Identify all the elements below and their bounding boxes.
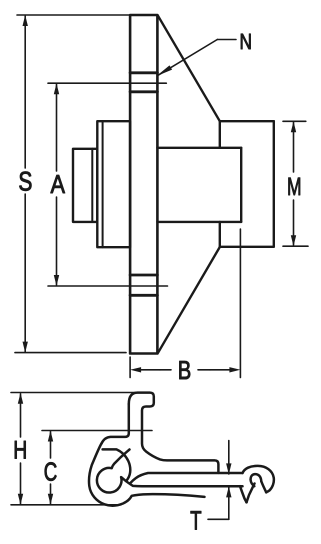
leader N diagonal bbox=[158, 40, 217, 76]
dimension M line upper segment bbox=[293, 122, 295, 172]
dimension C line lower segment bbox=[50, 484, 52, 504]
dimension B arrow right bbox=[229, 367, 240, 372]
dimension T leader elbow bbox=[208, 518, 229, 520]
dimension B right extension line bbox=[239, 229, 241, 378]
rim groove line upper 1 bbox=[130, 71, 157, 74]
dimension B arrow right shaft bbox=[210, 369, 230, 371]
left hub inner line bbox=[102, 121, 104, 247]
dimension S bottom extension line bbox=[15, 352, 126, 354]
dimension B arrow left shaft bbox=[140, 369, 160, 371]
flange disc rim bbox=[130, 15, 157, 354]
dimension A line upper segment bbox=[56, 84, 58, 171]
dimension A line lower segment bbox=[56, 197, 58, 285]
svg-text:C: C bbox=[44, 457, 58, 487]
dimension M bottom extension line bbox=[283, 245, 308, 247]
dimension C arrow down bbox=[48, 494, 53, 505]
dimension B left extension line bbox=[129, 357, 131, 378]
dimension M arrow up bbox=[291, 121, 296, 132]
right claw outer curl bbox=[243, 466, 274, 492]
cone top diagonal bbox=[158, 16, 220, 121]
dimension A bottom extension line bbox=[48, 285, 168, 287]
big C hook inner hole with tail rising to rail web, exit merging into band bottom bbox=[97, 450, 243, 493]
dimension H bottom extension line bbox=[11, 504, 121, 506]
dimension A arrow up bbox=[54, 83, 59, 94]
svg-text:A: A bbox=[50, 169, 65, 199]
dimension H top extension line bbox=[11, 392, 136, 394]
rim groove line lower 1 bbox=[130, 274, 157, 277]
left bushing inner line bbox=[91, 149, 93, 222]
dimension C top extension line bbox=[42, 430, 152, 432]
dimension M top extension line bbox=[283, 120, 306, 122]
rim groove line lower 2 bbox=[130, 294, 157, 297]
right claw lower finger outer bbox=[240, 486, 247, 502]
step bottom edge curving down into mouth bbox=[103, 449, 131, 481]
dimension B line right segment bbox=[198, 369, 210, 371]
dimension T lower arrow line bbox=[228, 487, 230, 519]
dimension M line lower segment bbox=[293, 200, 295, 245]
right claw finger inner edge bbox=[247, 484, 255, 503]
dimension S top extension line bbox=[17, 14, 129, 16]
dimension S arrow up bbox=[23, 15, 28, 26]
rim groove line upper 2 bbox=[130, 90, 157, 93]
barrel bottom edge bbox=[157, 221, 241, 223]
dimension T upper arrowhead bbox=[226, 463, 231, 474]
leader N arrowhead bbox=[156, 65, 172, 76]
right claw inner edge from tip bbox=[261, 481, 266, 492]
dimension S line lower segment bbox=[24, 194, 26, 352]
svg-text:N: N bbox=[239, 29, 252, 54]
dimension T upper arrow line bbox=[228, 441, 230, 475]
dimension T lower arrowhead bbox=[226, 486, 231, 497]
dimension C line upper segment bbox=[50, 432, 52, 459]
svg-text:T: T bbox=[190, 506, 202, 536]
right outer hub left edge lower segment bbox=[219, 222, 221, 247]
big C hook outer contour with tail under band bbox=[89, 444, 205, 506]
left hub rectangle bbox=[97, 121, 130, 247]
dimension S arrow down bbox=[23, 342, 28, 353]
dimension A arrow down bbox=[54, 275, 59, 286]
svg-text:S: S bbox=[18, 167, 32, 197]
dimension H line upper segment bbox=[20, 394, 22, 437]
dimension B arrow left bbox=[130, 367, 141, 372]
svg-text:M: M bbox=[287, 173, 302, 201]
leader N horizontal bbox=[217, 39, 236, 41]
right outer hub right edge bbox=[273, 121, 275, 247]
dimension S line upper segment bbox=[24, 16, 26, 168]
track rail hook top and web outline bbox=[129, 393, 219, 473]
dimension H line lower segment bbox=[20, 463, 22, 504]
barrel top edge bbox=[157, 147, 241, 149]
cone bottom diagonal bbox=[158, 247, 220, 353]
right claw pocket spiral bbox=[251, 474, 262, 486]
svg-text:H: H bbox=[13, 437, 27, 465]
dimension C arrow up bbox=[48, 431, 53, 442]
right outer hub top edge bbox=[220, 120, 274, 122]
dimension H arrow up bbox=[18, 393, 23, 404]
right outer hub left edge upper segment bbox=[219, 121, 221, 148]
clip band top edge curving from mouth bbox=[130, 473, 242, 483]
track rail web left edge and step bbox=[102, 404, 129, 444]
dimension M arrow down bbox=[291, 235, 296, 246]
dimension A top extension line bbox=[48, 82, 166, 84]
right outer hub bottom edge bbox=[220, 246, 274, 248]
svg-text:B: B bbox=[178, 355, 192, 385]
dimension B line left segment bbox=[160, 369, 171, 371]
dimension H arrow down bbox=[18, 494, 23, 505]
barrel right edge bbox=[240, 148, 242, 222]
left bushing rectangle bbox=[73, 149, 97, 222]
